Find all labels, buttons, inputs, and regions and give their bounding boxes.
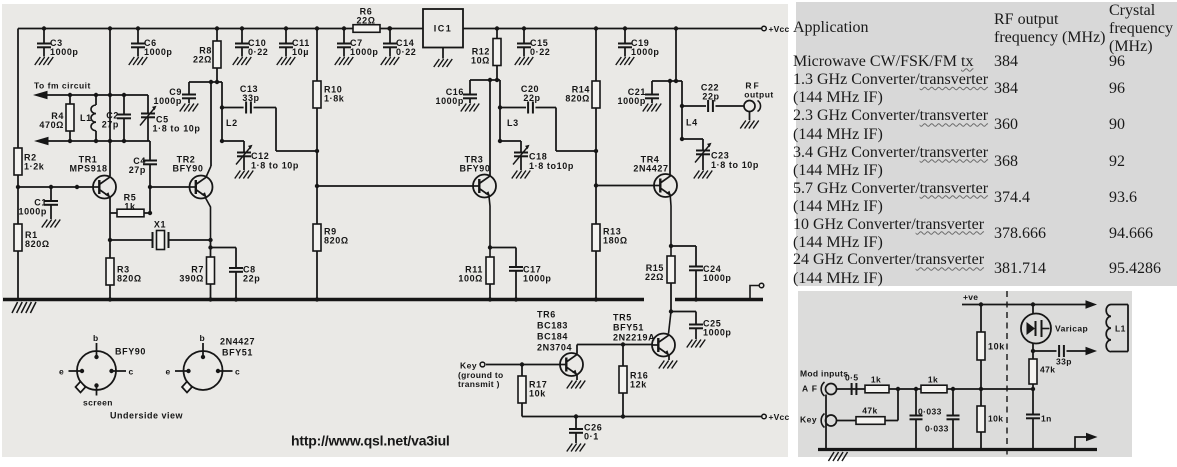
svg-text:BFY90: BFY90 (172, 164, 203, 174)
svg-text:L4: L4 (686, 118, 698, 128)
svg-text:c: c (129, 367, 134, 377)
svg-text:+Vcc: +Vcc (769, 412, 790, 422)
svg-text:1000p: 1000p (631, 47, 660, 57)
svg-text:1·8 to10p: 1·8 to10p (529, 161, 574, 171)
svg-text:e: e (166, 367, 171, 377)
svg-text:47k: 47k (1040, 365, 1055, 375)
svg-text:22Ω: 22Ω (356, 16, 375, 26)
svg-text:27p: 27p (102, 120, 119, 130)
svg-text:b: b (200, 333, 206, 343)
svg-text:1k: 1k (928, 375, 938, 385)
svg-text:BFY90: BFY90 (459, 164, 490, 174)
svg-text:L3: L3 (507, 118, 519, 128)
svg-text:2N4427: 2N4427 (220, 337, 255, 347)
svg-text:C12: C12 (251, 151, 269, 161)
svg-text:820Ω: 820Ω (117, 274, 142, 284)
svg-text:10k: 10k (988, 414, 1003, 424)
svg-text:1·8k: 1·8k (324, 94, 345, 104)
svg-text:47k: 47k (862, 406, 877, 416)
svg-text:IC1: IC1 (434, 24, 453, 34)
svg-text:0·22: 0·22 (396, 47, 416, 57)
svg-text:22Ω: 22Ω (193, 55, 212, 65)
svg-text:12k: 12k (630, 380, 647, 390)
svg-text:X1: X1 (154, 220, 166, 230)
svg-text:0·033: 0·033 (925, 424, 949, 434)
svg-text:C23: C23 (711, 151, 729, 161)
svg-text:http://www.qsl.net/va3iul: http://www.qsl.net/va3iul (291, 432, 450, 448)
svg-text:1k: 1k (124, 202, 136, 212)
svg-text:TR6: TR6 (537, 310, 556, 320)
svg-text:22Ω: 22Ω (645, 272, 664, 282)
svg-text:10Ω: 10Ω (471, 56, 490, 66)
svg-text:To fm circuit: To fm circuit (34, 81, 91, 91)
svg-text:1·2k: 1·2k (24, 162, 45, 172)
svg-text:1k: 1k (871, 375, 881, 385)
svg-text:BFY51: BFY51 (222, 348, 253, 358)
svg-text:1000p: 1000p (18, 207, 47, 217)
svg-text:TR5: TR5 (613, 313, 632, 323)
svg-text:L1: L1 (1115, 324, 1126, 334)
svg-text:Mod inputs: Mod inputs (800, 369, 848, 379)
svg-text:390Ω: 390Ω (179, 274, 204, 284)
svg-text:BFY90: BFY90 (115, 347, 146, 357)
svg-text:27p: 27p (129, 165, 146, 175)
svg-text:1·8 to 10p: 1·8 to 10p (251, 161, 299, 171)
svg-text:1000p: 1000p (350, 47, 379, 57)
svg-text:33p: 33p (242, 93, 259, 103)
svg-text:BC183: BC183 (537, 321, 568, 331)
svg-text:BFY51: BFY51 (613, 323, 644, 333)
svg-text:MPS918: MPS918 (69, 164, 107, 174)
svg-text:2N2219A: 2N2219A (613, 333, 655, 343)
svg-text:Key: Key (800, 415, 817, 425)
svg-text:+Vcc: +Vcc (769, 24, 790, 34)
svg-text:1000p: 1000p (617, 96, 646, 106)
svg-text:2N3704: 2N3704 (537, 343, 572, 353)
svg-text:BC184: BC184 (537, 332, 568, 342)
svg-text:100Ω: 100Ω (458, 274, 483, 284)
svg-text:820Ω: 820Ω (25, 239, 50, 249)
svg-text:22p: 22p (702, 92, 719, 102)
svg-text:b: b (93, 333, 99, 343)
svg-text:0·22: 0·22 (248, 47, 268, 57)
svg-text:0·5: 0·5 (845, 373, 859, 383)
svg-text:1000p: 1000p (144, 47, 173, 57)
svg-text:820Ω: 820Ω (565, 94, 590, 104)
svg-text:transmit ): transmit ) (458, 379, 500, 389)
svg-text:0·22: 0·22 (530, 47, 550, 57)
svg-text:1000p: 1000p (153, 96, 182, 106)
svg-text:1000p: 1000p (703, 328, 732, 338)
svg-text:1000p: 1000p (435, 96, 464, 106)
svg-text:output: output (744, 90, 773, 100)
svg-text:L2: L2 (226, 118, 238, 128)
svg-text:C18: C18 (529, 152, 547, 162)
svg-text:1·8 to 10p: 1·8 to 10p (153, 124, 201, 134)
svg-text:L1: L1 (80, 113, 92, 123)
svg-text:e: e (59, 367, 64, 377)
svg-text:820Ω: 820Ω (324, 236, 349, 246)
svg-text:10k: 10k (988, 342, 1005, 352)
svg-text:1n: 1n (1041, 414, 1052, 424)
svg-text:10k: 10k (529, 389, 546, 399)
svg-text:1000p: 1000p (50, 47, 79, 57)
svg-text:0·033: 0·033 (918, 407, 942, 417)
svg-text:2N4427: 2N4427 (633, 164, 668, 174)
svg-text:1·8 to 10p: 1·8 to 10p (711, 160, 759, 170)
svg-text:10µ: 10µ (292, 47, 309, 57)
svg-text:+ve: +ve (963, 292, 978, 302)
svg-text:Underside view: Underside view (110, 411, 184, 421)
svg-text:1000p: 1000p (703, 273, 732, 283)
svg-text:A F: A F (802, 384, 818, 394)
svg-text:Varicap: Varicap (1055, 324, 1088, 334)
svg-text:180Ω: 180Ω (603, 236, 628, 246)
svg-text:470Ω: 470Ω (39, 120, 64, 130)
svg-text:22p: 22p (243, 274, 260, 284)
svg-text:c: c (235, 367, 240, 377)
svg-text:33p: 33p (1056, 357, 1072, 367)
svg-text:1000p: 1000p (523, 274, 552, 284)
svg-text:22p: 22p (523, 93, 540, 103)
svg-text:screen: screen (83, 398, 113, 408)
svg-text:0·1: 0·1 (584, 432, 599, 442)
